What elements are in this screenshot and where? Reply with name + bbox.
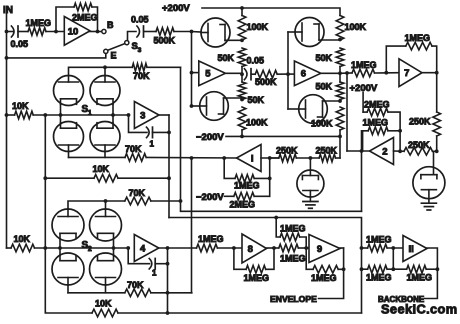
node S1 rail x45 [43, 113, 47, 117]
tube V5 [297, 158, 324, 202]
wire S1 bottom row [69, 152, 126, 158]
node -200V left column [240, 135, 244, 139]
wire R18 to rail [433, 150, 437, 152]
svg-text:ENVELOPE: ENVELOPE [270, 294, 317, 304]
node S2 rail x45 [43, 246, 47, 250]
resistor R37 1MEG [362, 265, 392, 282]
svg-text:1: 1 [152, 269, 157, 278]
wire left rail [6, 32, 8, 249]
wire R3 to node [174, 31, 192, 33]
resistor R17 1MEG feedback [363, 117, 389, 134]
resistor R24 10K [12, 101, 33, 119]
wire R23 to bus [147, 66, 181, 68]
node U5 input [190, 71, 194, 75]
node U8 input [232, 246, 236, 250]
wire U4 output [159, 247, 197, 249]
svg-text:50K: 50K [316, 53, 333, 63]
wire U10 feedback down [92, 7, 98, 32]
wire 2MEG stub [362, 93, 364, 113]
label -200V mid [196, 132, 224, 143]
node 10K mid right [167, 176, 171, 180]
svg-text:2MEG: 2MEG [230, 200, 256, 210]
svg-text:1MEG: 1MEG [311, 273, 337, 283]
svg-text:1MEG: 1MEG [363, 117, 389, 127]
wire R37 join [387, 268, 407, 270]
wire R36 to U11 [387, 247, 403, 249]
wire R33 to U9 [298, 247, 309, 249]
tube S2 TL [52, 209, 84, 248]
svg-text:50K: 50K [248, 95, 265, 105]
svg-text:3: 3 [140, 110, 145, 121]
node S1 rail TL exit [59, 113, 63, 117]
wire U7 feedback up [386, 46, 406, 73]
wire U11 out loop [425, 248, 438, 299]
wire U9 fb right [338, 248, 343, 269]
resistor R26 10K [93, 164, 119, 182]
resistor R23 70K [132, 64, 150, 82]
node U3 input [127, 113, 131, 117]
resistor R13 1MEG [351, 60, 377, 77]
resistor R29 70K [125, 280, 151, 297]
op-amp U1 [237, 145, 262, 172]
ground V5 [303, 202, 318, 209]
node U1 input [268, 156, 272, 160]
node U3 out cap [167, 131, 171, 135]
svg-text:8: 8 [248, 244, 253, 255]
node modulator left top [190, 30, 194, 34]
wire R13 to U7 [375, 72, 400, 74]
node S2 rail TL exit [58, 246, 62, 250]
wire 10K mid row [45, 177, 169, 179]
tube V2 [192, 92, 229, 121]
op-amp U8 [242, 234, 267, 263]
svg-text:10K: 10K [93, 164, 110, 174]
ground V6 [421, 203, 436, 210]
wire amp2 riser [346, 73, 348, 151]
resistor R22 2MEG [230, 193, 256, 210]
node U4 input [126, 246, 130, 250]
resistor R25 70K [125, 144, 146, 161]
op-amp U10 [64, 17, 90, 46]
node C5 out [166, 262, 170, 266]
node E rail junction [5, 56, 9, 60]
svg-text:70K: 70K [133, 71, 150, 81]
wire R17 right join [388, 130, 400, 132]
node U7 input [384, 71, 388, 75]
svg-text:1MEG: 1MEG [234, 181, 260, 191]
node right column bottom [338, 135, 342, 139]
svg-text:50K: 50K [218, 53, 235, 63]
node column left A [240, 38, 244, 42]
svg-text:70K: 70K [129, 188, 146, 198]
node S1 rail TR exit [111, 113, 115, 117]
op-amp U6 [294, 61, 320, 86]
svg-text:B: B [107, 20, 114, 30]
resistor R15 250K [409, 112, 441, 136]
svg-text:1: 1 [88, 110, 92, 117]
svg-text:IN: IN [3, 5, 13, 16]
svg-text:1: 1 [150, 140, 155, 149]
svg-text:2MEG: 2MEG [72, 13, 98, 23]
capacitor C1 0.05 [7, 26, 29, 49]
wire S2 top row [68, 201, 125, 209]
tube S1 BR [90, 115, 120, 152]
node column left B [240, 72, 244, 76]
wire E stub [7, 54, 106, 58]
resistor R19 250K [276, 145, 298, 162]
tube V3 [288, 18, 324, 47]
svg-text:4: 4 [140, 243, 146, 254]
resistor R14 1MEG feedback [405, 33, 433, 50]
wire U1 input wire [261, 157, 279, 159]
node U7 output [435, 71, 439, 75]
wire column seg [241, 67, 243, 83]
node U4 out [166, 246, 170, 250]
svg-text:250K: 250K [316, 145, 338, 155]
wire U10 feedback up [56, 7, 74, 32]
resistor R8 100K [336, 16, 366, 41]
resistor R30 10K [92, 299, 118, 317]
node R29 cross [166, 291, 170, 295]
wire V5 riser [0, 0, 1, 1]
wire +200V rail [202, 8, 340, 16]
node column right C [338, 99, 342, 103]
svg-text:10K: 10K [12, 101, 29, 111]
tube S1 TL [54, 76, 84, 116]
wire U8 fb left [234, 248, 246, 269]
node vA amp11 low [360, 267, 364, 271]
resistor R21 1MEG feedback [234, 175, 260, 191]
node U1 fb left [222, 156, 226, 160]
resistor R2 2MEG feedback [72, 3, 98, 22]
wire V3 left drop [287, 32, 289, 74]
wire S1 TR stem [104, 67, 106, 75]
wire ENVELOPE riser [319, 269, 344, 298]
wire column seg right [339, 67, 341, 83]
wire cap to R3 [144, 31, 156, 33]
node U2 fb join [398, 129, 402, 133]
wire right rail to junction [436, 136, 438, 151]
resistor R10 50K [316, 82, 344, 100]
resistor R12 500K [255, 70, 277, 87]
wire U2 output [347, 150, 370, 152]
svg-text:2MEG: 2MEG [364, 99, 390, 109]
svg-text:9: 9 [317, 244, 322, 255]
label BACKBONE [378, 295, 425, 304]
node vC top [190, 156, 194, 160]
node amp2 riser top [345, 71, 349, 75]
label +200V top [162, 3, 190, 14]
wire S2 TR stem [105, 201, 107, 209]
svg-text:I: I [251, 153, 254, 164]
wire R16 corner [388, 112, 400, 131]
wire C4 to out [153, 131, 170, 133]
tube S1 BL [54, 115, 84, 152]
wire R17 left corner [363, 131, 369, 151]
wire U3 fb loop [129, 115, 148, 132]
wire U7 output [422, 72, 437, 74]
wire right rail upper [436, 73, 438, 112]
node column left C [240, 98, 244, 102]
resistor R32 1MEG feedback [244, 266, 270, 284]
wire U5 input [192, 32, 199, 107]
switch S3 [104, 41, 129, 54]
wire R22 to input [254, 195, 270, 197]
wire R34 right corner [300, 237, 307, 248]
wire V4 to column [323, 100, 341, 102]
resistor R31 1MEG [197, 234, 224, 252]
wire -200V dash [225, 195, 234, 197]
resistor R16 2MEG [363, 99, 389, 116]
svg-text:250K: 250K [409, 117, 431, 127]
wire R12 to node [277, 73, 288, 75]
resistor R11 100K [311, 107, 344, 130]
node U9 input [304, 246, 308, 250]
label E [111, 51, 117, 61]
resistor R28 10K [11, 234, 35, 252]
label -200V lower [196, 192, 224, 203]
wire U3 output [159, 115, 169, 218]
wire vB riser [361, 131, 363, 212]
svg-text:1MEG: 1MEG [407, 273, 433, 283]
label S2 [82, 240, 92, 253]
capacitor C4 [147, 127, 155, 148]
node V3 drop [286, 72, 290, 76]
node vA amp9 branch [274, 216, 278, 220]
svg-text:1MEG: 1MEG [405, 33, 431, 43]
wire V3 plate to column [319, 39, 340, 41]
wire S1 top row [69, 67, 133, 75]
resistor R38 1MEG feedback [407, 265, 433, 282]
watermark [381, 302, 458, 317]
svg-text:1MEG: 1MEG [280, 253, 306, 263]
wire node to R13 [340, 72, 352, 74]
op-amp U2 [370, 138, 394, 165]
wire U1 fb left [224, 158, 270, 178]
node U10 output [96, 30, 100, 34]
wire +200V into left column [241, 8, 243, 16]
wire V1 plate to column [225, 39, 242, 41]
wire bus vB [181, 67, 362, 211]
wire R31 to U8 [217, 247, 242, 249]
node 10K mid left [43, 176, 47, 180]
wire column right to -200V row [339, 130, 341, 136]
resistor R18 250K [404, 140, 433, 155]
wire U6 input [288, 73, 294, 75]
tube S2 TR [90, 209, 122, 248]
resistor R27 70K [125, 188, 151, 205]
svg-text:7: 7 [404, 68, 409, 79]
resistor R7 100K [238, 107, 268, 130]
resistor R35 1MEG feedback [311, 266, 338, 284]
resistor R1 1MEG [26, 18, 52, 35]
svg-text:1MEG: 1MEG [26, 18, 52, 28]
resistor R34 1MEG top [280, 223, 306, 241]
label S1 [82, 104, 92, 117]
tube V6 [413, 151, 445, 203]
node S2 top TR [104, 199, 108, 203]
node IN junction [5, 30, 9, 34]
node U9 fb env [342, 267, 346, 271]
capacitor C2 0.05 [131, 15, 149, 38]
wire U9 fb left [306, 248, 313, 269]
svg-text:1MEG: 1MEG [244, 273, 270, 283]
wire C3 to R12 [251, 73, 255, 75]
wire S1 rail [33, 114, 128, 116]
node column right A [338, 38, 342, 42]
wire U7 feedback to output [432, 46, 437, 73]
label ENVELOPE [270, 294, 317, 304]
wire R27 to bus [151, 200, 181, 202]
tube V4 [288, 74, 327, 123]
resistor R20 250K [316, 145, 338, 162]
wire U8 output [267, 247, 279, 249]
node S2 rail TR exit [112, 246, 116, 250]
node S1 rail left [5, 113, 9, 117]
svg-text:10K: 10K [14, 234, 31, 244]
svg-text:2: 2 [88, 246, 92, 253]
resistor R33 1MEG [279, 244, 306, 263]
node U2 output branch [360, 149, 364, 153]
label S3 [132, 41, 142, 54]
svg-text:50K: 50K [316, 82, 333, 92]
wire S2 rail left [7, 247, 12, 249]
resistor R5 50K [218, 48, 246, 67]
node 250K mid [309, 156, 313, 160]
node column right B [338, 71, 342, 75]
svg-text:70K: 70K [125, 144, 142, 154]
wire S1 rail left [7, 114, 15, 116]
wire bus vA horizontal [169, 218, 362, 314]
wire U4 out drop [167, 248, 169, 313]
svg-text:500K: 500K [154, 36, 176, 46]
svg-text:II: II [409, 244, 414, 255]
svg-text:500K: 500K [255, 77, 277, 87]
svg-text:10: 10 [68, 26, 79, 37]
wire U5 output [225, 72, 242, 75]
svg-text:6: 6 [301, 69, 306, 80]
terminal B [102, 20, 114, 34]
node U11 fb join [436, 267, 440, 271]
node right rail junction [435, 149, 439, 153]
wire U9 output [340, 247, 344, 249]
svg-text:1MEG: 1MEG [351, 60, 377, 70]
node V2 left [190, 104, 194, 108]
svg-text:2: 2 [382, 146, 387, 157]
node U11 input [391, 246, 395, 250]
svg-text:0.05: 0.05 [131, 15, 149, 25]
wire junction to tube V6 [0, 0, 1, 1]
wire to op-amp U10 [46, 31, 64, 33]
wire U10 output [90, 31, 102, 33]
resistor R4 100K [238, 16, 268, 41]
svg-text:1MEG: 1MEG [366, 273, 392, 283]
node U1 fb mid [268, 177, 272, 181]
svg-text:5: 5 [205, 69, 211, 80]
wire U4 fb loop [128, 248, 149, 264]
wire column to -200V row [241, 130, 243, 136]
node +200V left column [240, 6, 244, 10]
node bottom U4 drop [166, 311, 170, 315]
op-amp U7 [399, 59, 422, 87]
wire R29 to corner [151, 292, 192, 294]
op-amp U4 [134, 235, 159, 262]
wire S2 bottom row [68, 285, 125, 293]
wire U2 input wire [394, 150, 405, 152]
node vB S2 tap [179, 199, 183, 203]
op-amp U3 [134, 102, 159, 129]
svg-text:100K: 100K [345, 22, 367, 32]
node vA amp11 in [360, 246, 364, 250]
svg-text:250K: 250K [276, 145, 298, 155]
op-amp U9 [309, 235, 340, 263]
wire vC vertical [191, 158, 193, 293]
svg-text:1MEG: 1MEG [198, 234, 224, 244]
node U8 out [272, 246, 276, 250]
tube S2 BR [90, 248, 122, 285]
svg-text:+200V: +200V [162, 3, 190, 14]
wire x45 vertical [44, 115, 46, 312]
svg-text:100K: 100K [247, 22, 269, 32]
op-amp U5 [199, 61, 226, 86]
node U10 input [54, 30, 58, 34]
wire 250K row segs [270, 157, 340, 159]
node U2 input [398, 149, 402, 153]
label +200V mid [350, 83, 378, 94]
node U11 low join [391, 267, 395, 271]
wire U6 output [321, 72, 340, 74]
wire C5 to out [155, 263, 167, 265]
wire U11 in drop [392, 248, 394, 269]
op-amp U11 [403, 236, 427, 262]
svg-text:3: 3 [138, 47, 142, 54]
svg-text:1MEG: 1MEG [280, 223, 306, 233]
node S1 top TR [103, 65, 107, 69]
resistor R3 500K [154, 28, 176, 46]
resistor R9 50K [316, 48, 344, 67]
wire U2 input riser [399, 131, 401, 152]
wire U1 fb down [269, 158, 271, 196]
resistor R6 50K [238, 82, 264, 105]
wire U1 output row [146, 156, 236, 159]
svg-text:0.05: 0.05 [11, 39, 29, 49]
svg-text:70K: 70K [127, 280, 144, 290]
svg-text:−200V: −200V [196, 192, 224, 203]
svg-text:−200V: −200V [196, 132, 224, 143]
svg-text:10K: 10K [95, 299, 112, 309]
wire V2 to column [224, 98, 243, 100]
resistor R36 1MEG [362, 235, 392, 252]
svg-text:0.05: 0.05 [247, 56, 265, 66]
capacitor C5 [149, 258, 157, 277]
wire -200V row [226, 135, 340, 137]
tube S1 TR [90, 76, 120, 116]
tube V1 [192, 18, 231, 47]
svg-text:250K: 250K [408, 140, 430, 150]
capacitor C3 0.05 [244, 56, 264, 80]
wire S2 rail [35, 247, 129, 249]
wire S3 up to cap [128, 32, 137, 41]
tube S2 BL [52, 248, 84, 285]
wire right column down [339, 136, 341, 158]
wire bottom row [45, 312, 361, 313]
wire amp9 top branch [276, 218, 280, 238]
svg-text:1MEG: 1MEG [366, 235, 392, 245]
wire U8 fb right [266, 248, 274, 269]
node IN label [3, 5, 13, 32]
svg-text:E: E [111, 51, 117, 61]
svg-text:SeekIC.com: SeekIC.com [381, 302, 458, 317]
